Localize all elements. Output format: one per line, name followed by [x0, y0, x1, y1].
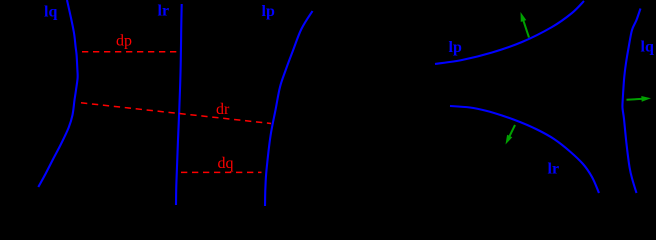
svg-text:lp: lp — [262, 3, 275, 20]
svg-text:lq: lq — [44, 4, 57, 21]
svg-text:dp: dp — [116, 33, 132, 50]
svg-text:dr: dr — [216, 101, 230, 118]
svg-text:lq: lq — [641, 39, 654, 56]
svg-text:lp: lp — [449, 39, 462, 56]
svg-text:lr: lr — [158, 3, 170, 20]
svg-text:lr: lr — [548, 161, 560, 178]
svg-text:dq: dq — [218, 155, 234, 172]
